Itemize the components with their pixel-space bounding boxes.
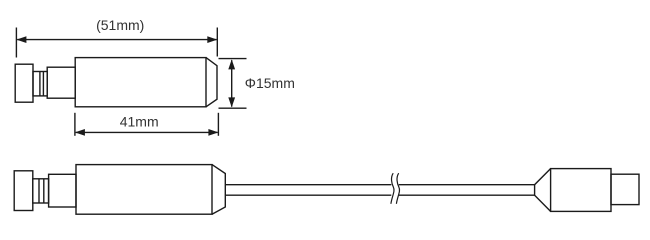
connector tip xyxy=(611,174,639,204)
svg-text:Φ15mm: Φ15mm xyxy=(245,75,295,91)
neck groove line 2 (side view) xyxy=(43,179,45,203)
extension line right of (51mm) xyxy=(216,28,218,57)
svg-text:(51mm): (51mm) xyxy=(96,17,144,33)
extension line top of dia 15mm xyxy=(219,58,247,60)
arrowhead left 41mm xyxy=(75,129,85,136)
arrowhead up dia 15mm xyxy=(228,59,235,69)
front cap (top view) xyxy=(15,64,33,102)
lens neck (top view) xyxy=(33,72,47,96)
neck groove line 1 (top view) xyxy=(39,72,41,96)
cable top edge (left segment) xyxy=(225,184,391,186)
extension line right of 41mm xyxy=(217,113,219,136)
dimension line dia 15mm xyxy=(231,60,233,106)
middle cylinder (side view) xyxy=(49,174,76,207)
extension line left of (51mm) xyxy=(15,28,17,58)
cable break S-curve left xyxy=(391,173,394,204)
connector body xyxy=(551,169,611,212)
extension line bottom of dia 15mm xyxy=(219,107,247,109)
dimension line (51mm) xyxy=(17,39,216,41)
neck groove line 2 (top view) xyxy=(42,72,44,96)
main body (side view) xyxy=(76,165,212,215)
neck groove line 1 (side view) xyxy=(38,179,40,203)
extension line left of 41mm xyxy=(74,113,76,136)
cable top edge (right segment) xyxy=(399,184,535,186)
lens neck (side view) xyxy=(33,179,49,203)
rear taper cap (side view) xyxy=(212,165,225,215)
main body (top view) xyxy=(75,58,206,107)
cable bottom edge (left segment) xyxy=(225,194,391,196)
dimension line 41mm xyxy=(76,131,218,133)
middle cylinder (top view) xyxy=(47,67,75,98)
cable break S-curve right xyxy=(396,173,399,204)
front cap (side view with cable) xyxy=(14,171,33,211)
arrowhead down dia 15mm xyxy=(228,97,235,107)
arrowhead left (51mm) xyxy=(16,36,26,43)
arrowhead right 41mm xyxy=(208,129,218,136)
arrowhead right (51mm) xyxy=(207,36,217,43)
rear chamfer cap (top view) xyxy=(206,58,217,107)
connector strain-relief taper xyxy=(535,169,551,212)
cable bottom edge (right segment) xyxy=(399,194,535,196)
svg-text:41mm: 41mm xyxy=(120,114,159,130)
